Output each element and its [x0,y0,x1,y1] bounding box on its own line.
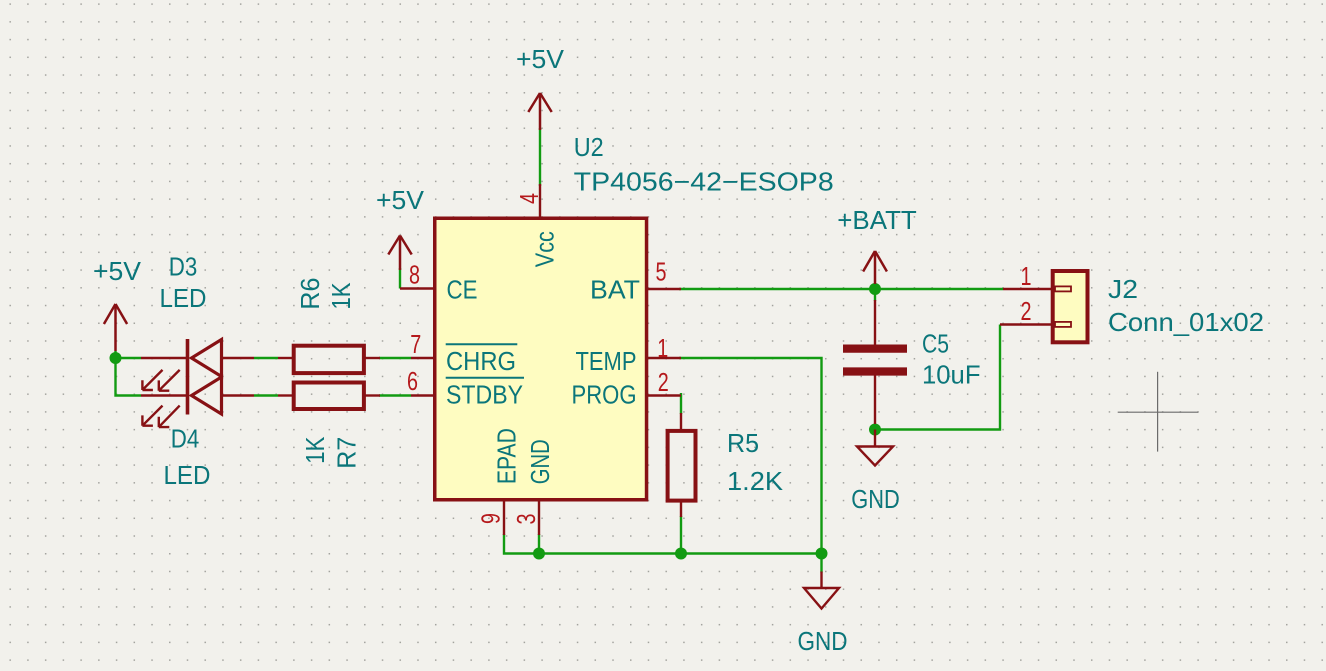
svg-text:R7: R7 [332,437,362,469]
node junction BAT/+BATT/C5 [869,283,881,295]
wire TEMP node down to GND symbol [820,554,822,573]
svg-text:STDBY: STDBY [446,380,523,410]
svg-text:7: 7 [410,329,421,359]
J2 pin 1 stub [1003,288,1052,290]
wire D4 to R7 [254,394,278,396]
svg-text:1: 1 [657,333,668,363]
U2 pin 6 STDBY stub [411,394,437,396]
wire R7 to pin 6 STDBY [379,394,411,396]
U2 pin 7 CHRG stub [411,357,437,359]
svg-text:D4: D4 [171,424,200,454]
svg-text:+BATT: +BATT [837,205,917,235]
wire pin 4 Vcc to +5V symbol [539,128,541,186]
svg-text:1K: 1K [300,436,330,464]
svg-text:LED: LED [164,460,211,490]
wire D3 to R6 [254,357,278,359]
U2 pin 5 BAT stub [648,288,681,290]
wire pin 8 CE to +5V symbol [399,268,401,289]
resistor R6 [278,346,380,373]
svg-text:+5V: +5V [516,44,565,74]
ground symbol bottom [804,572,839,609]
power +5V symbol left [104,304,127,351]
svg-text:+5V: +5V [93,256,142,286]
svg-text:4: 4 [514,193,544,204]
svg-text:GND: GND [851,484,900,514]
svg-text:CE: CE [447,275,478,305]
svg-text:9: 9 [476,513,506,524]
svg-text:CHRG: CHRG [446,346,516,376]
svg-text:+5V: +5V [376,185,425,215]
U2 pin 3 GND stub [538,500,540,535]
svg-text:2: 2 [658,367,669,397]
svg-text:LED: LED [160,283,207,313]
svg-text:GND: GND [525,439,555,484]
svg-text:PROG: PROG [572,380,637,410]
LED D3 [141,339,254,391]
pin name CHRG with overline [446,344,518,376]
svg-text:R5: R5 [727,428,759,458]
wire R5 bottom to rail [680,516,682,554]
svg-text:R6: R6 [295,278,325,310]
svg-text:C5: C5 [922,328,949,358]
svg-text:5: 5 [656,256,667,286]
ground symbol below C5 [857,430,893,466]
node junction pin3 on rail [533,548,545,560]
resistor R7 [278,383,380,410]
svg-text:EPAD: EPAD [492,428,522,484]
node junction at +5V/D3/D4 [110,352,122,364]
svg-text:8: 8 [409,260,420,290]
svg-text:TP4056−42−ESOP8: TP4056−42−ESOP8 [574,167,834,197]
wire R6 to pin 7 CHRG [379,357,411,359]
svg-text:TEMP: TEMP [576,346,637,376]
IC U2 body TP4056 [435,218,647,500]
resistor R5 [668,413,696,517]
wire BAT to J2 pin 1 [679,288,1003,290]
wire +5V junction to D3 anode [116,357,142,359]
U2 pin 9 EPAD stub [503,500,505,535]
wire TEMP to GND rail [679,358,822,554]
svg-text:GND: GND [798,626,848,656]
LED D4 [141,377,254,428]
wire PROG to R5 [680,393,682,414]
power +5V symbol at CE [388,236,411,271]
svg-text:Conn_01x02: Conn_01x02 [1108,307,1264,337]
svg-text:BAT: BAT [590,275,640,305]
power +BATT symbol [863,251,887,284]
node junction C5 bottom / GND / J2.2 [869,424,881,436]
capacitor C5 [843,300,907,424]
pin name STDBY with overline [446,378,524,410]
svg-text:1.2K: 1.2K [727,466,784,496]
node junction R5 on rail [675,548,687,560]
power +5V symbol at Vcc [528,93,551,130]
svg-text:1: 1 [1021,261,1032,291]
svg-text:3: 3 [511,514,541,525]
svg-text:D3: D3 [169,252,198,282]
svg-text:J2: J2 [1108,274,1138,304]
J2 pin 2 stub [1000,323,1052,325]
crosshair marker [1118,372,1199,452]
wire GND rail [504,534,822,554]
wire C5 top stub [874,289,876,301]
U2 pin 4 Vcc stub [539,184,541,219]
svg-text:Vcc: Vcc [530,231,560,267]
svg-text:2: 2 [1021,296,1032,326]
svg-text:U2: U2 [574,132,604,162]
wire +5V junction down to D4 row [116,351,142,396]
U2 pin 2 PROG stub [648,394,681,396]
node junction TEMP/GND on rail [816,548,828,560]
svg-text:10uF: 10uF [922,360,981,390]
U2 pin 8 CE stub [400,287,437,289]
svg-text:6: 6 [407,366,418,396]
svg-text:1K: 1K [326,282,356,310]
wire C5 bottom node to J2 pin 2 [875,325,1000,430]
connector J2 [1053,271,1088,342]
wire pin 3 to rail [538,534,540,554]
U2 pin 1 TEMP stub [648,357,681,359]
